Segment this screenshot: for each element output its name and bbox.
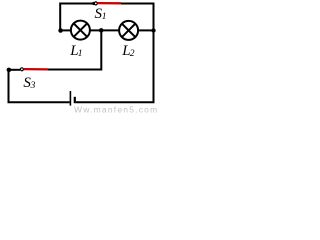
label S1 (95, 6, 107, 22)
node: right lamp junction (151, 28, 155, 32)
wire top-right + right vertical + bottom run to battery (76, 4, 154, 103)
battery (70, 91, 74, 106)
wire top-left: left vertical + top run to switch S1 (60, 4, 94, 31)
switch S3 (10, 68, 48, 71)
node: mid lamp junction (99, 28, 104, 33)
svg-text:1: 1 (78, 49, 83, 59)
svg-text:2: 2 (130, 49, 135, 59)
wire: lamp L1 to lamp L2 (90, 29, 119, 31)
node: S3 junction (7, 68, 12, 73)
label S3 (23, 75, 35, 91)
node: left lamp junction (58, 28, 63, 33)
wire: lamp L2 to right vertical (138, 29, 154, 31)
label L1 (69, 43, 82, 59)
switch S1 (92, 2, 121, 5)
wire: node to lamp L1 (61, 29, 71, 31)
wire: left vertical down + bottom run to battery (9, 70, 70, 102)
svg-text:1: 1 (102, 12, 107, 22)
svg-text:Ww.manfen5.com: Ww.manfen5.com (74, 105, 158, 115)
lamp L2 (119, 21, 138, 40)
lamp L1 (71, 21, 90, 40)
label L2 (121, 43, 135, 59)
svg-text:3: 3 (30, 81, 36, 91)
wire: mid vertical down from mid lamp junction to S3 run (48, 30, 101, 69)
